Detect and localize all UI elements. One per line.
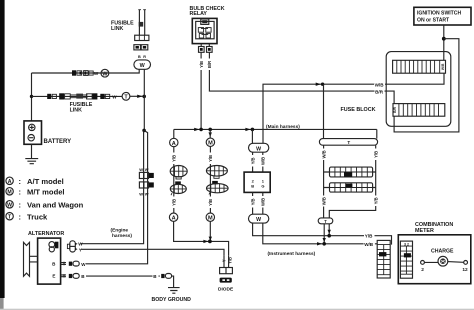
connector oval T long	[319, 139, 377, 146]
fusible link FL2 symbol	[59, 93, 97, 99]
node W legend	[6, 201, 13, 208]
svg-text:(Main harness): (Main harness)	[266, 124, 300, 130]
meter connector inside	[400, 241, 412, 278]
junction arrow down	[209, 237, 212, 241]
alternator	[38, 238, 61, 284]
connector round M1	[206, 166, 227, 179]
svg-text:W: W	[7, 203, 12, 209]
node engine harness junction	[208, 240, 212, 244]
svg-text:Y/B: Y/B	[250, 157, 255, 164]
svg-text:Y/B: Y/B	[199, 61, 204, 68]
label B/R	[375, 88, 385, 94]
svg-text:3 2: 3 2	[404, 242, 409, 246]
wire lamp terminals	[424, 261, 463, 264]
main harness line	[174, 128, 377, 130]
svg-text:W/B: W/B	[441, 63, 445, 70]
wire from T node to junction	[130, 95, 144, 97]
node relay tap	[199, 128, 203, 132]
legend	[6, 177, 84, 221]
svg-text:W: W	[256, 146, 261, 152]
alternator plug connector	[67, 241, 77, 252]
svg-text:harness): harness)	[112, 233, 132, 239]
svg-text:W/B: W/B	[375, 82, 385, 87]
combination meter box	[398, 235, 471, 284]
svg-text:A/T model: A/T model	[27, 177, 64, 186]
node M legend	[6, 188, 13, 195]
junction arrow down Y/B	[328, 230, 331, 234]
svg-text:W/B: W/B	[364, 242, 374, 247]
svg-text:Y/B: Y/B	[171, 155, 176, 162]
wire T oval to W/B row	[323, 224, 325, 244]
wire Y/B row	[253, 223, 392, 245]
svg-text:Y/B: Y/B	[250, 198, 255, 205]
svg-text:M: M	[208, 141, 213, 147]
label W/B rotated	[260, 196, 265, 208]
svg-text:W/B: W/B	[321, 197, 326, 205]
label Y/B rotated	[171, 153, 176, 165]
wire M branch middle	[209, 147, 211, 214]
svg-text:DIODE: DIODE	[218, 287, 234, 293]
alternator pulley	[24, 242, 38, 276]
node Y/B row junction	[327, 234, 331, 238]
svg-text:IGNITION SWITCH: IGNITION SWITCH	[417, 11, 461, 17]
label Y/B rotated	[227, 256, 232, 266]
svg-text:B: B	[138, 55, 141, 59]
node ignition branch	[442, 37, 446, 41]
label W/B row	[364, 241, 375, 247]
wire W (top battery feed)	[32, 70, 140, 74]
svg-text:W: W	[139, 192, 143, 197]
svg-text:(Instrument harness): (Instrument harness)	[268, 251, 316, 257]
wire A branch middle	[173, 147, 175, 213]
svg-text::: :	[19, 201, 22, 210]
left page black bar	[0, 0, 5, 298]
svg-text::: :	[19, 188, 22, 197]
label W/B rotated	[321, 196, 326, 207]
diode connector	[220, 268, 233, 274]
svg-text:FUSE BLOCK: FUSE BLOCK	[341, 107, 376, 113]
label B/R rotated	[207, 59, 212, 71]
connector on fusible wire	[100, 94, 109, 99]
svg-text:A: A	[172, 141, 176, 147]
junction arrow right W/B row	[317, 242, 322, 245]
svg-text:Y/B: Y/B	[208, 199, 213, 206]
node A legend	[6, 177, 13, 184]
svg-text:Y/B: Y/B	[171, 199, 176, 206]
node battery junction	[30, 95, 33, 98]
node A lower	[169, 213, 177, 222]
svg-text:W: W	[145, 192, 149, 197]
label W/B rotated	[321, 149, 326, 161]
bulb check relay	[192, 18, 217, 43]
connector strip 1	[330, 167, 373, 177]
label Y/B rotated	[199, 59, 204, 71]
node M upper	[206, 138, 214, 147]
svg-text:R: R	[143, 55, 146, 59]
junction arrow W branch	[245, 128, 250, 131]
fuse block	[386, 52, 451, 127]
svg-text:M: M	[7, 190, 11, 196]
svg-text:RELAY: RELAY	[190, 11, 208, 17]
label W/B rotated	[260, 155, 265, 167]
svg-text:W: W	[112, 95, 117, 100]
svg-text:Van and Wagon: Van and Wagon	[27, 201, 84, 210]
connector box B2 G1	[244, 172, 270, 192]
connector body ground	[161, 274, 171, 279]
wire to alternator plug W pin	[81, 130, 144, 243]
wire to body ground	[172, 276, 174, 287]
svg-text:W: W	[256, 217, 261, 223]
wires into diode connector	[224, 256, 229, 268]
wires W oval to connector box	[253, 152, 263, 172]
wire M branch	[209, 129, 211, 138]
label Y/B row	[364, 233, 375, 239]
node T legend	[6, 213, 13, 220]
svg-text::: :	[19, 177, 22, 186]
svg-text::: :	[19, 212, 22, 221]
svg-text:B/R: B/R	[375, 89, 384, 94]
wire alternator Y to diode	[81, 249, 224, 255]
svg-text:(Engine: (Engine	[111, 228, 129, 234]
node M lower	[206, 213, 214, 222]
connector pair on W wires lower	[139, 182, 153, 188]
connector pair on W wires	[139, 172, 153, 178]
main harness corner into fuse connector	[376, 129, 378, 138]
svg-text:A: A	[172, 216, 176, 222]
junction arrow relay	[194, 128, 199, 131]
wire M branch to engine harness junction	[209, 221, 211, 241]
fusible link FL1 (vertical)	[135, 10, 149, 41]
wire W/B branch to fuse T connector	[323, 84, 325, 138]
svg-text:T: T	[347, 140, 350, 145]
label Y rotated	[221, 257, 226, 265]
wire T oval left W/B down	[324, 145, 330, 218]
node W/B branch	[321, 83, 324, 86]
wire alternator E to body ground	[86, 275, 160, 277]
svg-text:M: M	[208, 216, 213, 222]
diode D1	[220, 278, 232, 283]
junction arrow down W/B	[323, 238, 326, 242]
wire W oval branch upper	[251, 129, 253, 143]
body ground symbol	[168, 288, 180, 294]
svg-text:12: 12	[462, 267, 468, 273]
label Y/B rotated	[208, 153, 213, 165]
svg-text:W: W	[139, 167, 143, 172]
junction arrow	[137, 95, 142, 98]
ignition switch box	[414, 7, 471, 25]
wire relay Y/B down to main harness	[200, 52, 202, 129]
junction arrow W/B	[316, 83, 321, 86]
node W branch tap	[251, 128, 255, 132]
svg-text:ON or START: ON or START	[417, 18, 450, 24]
label Y/B rotated	[373, 196, 378, 207]
wire relay B/R down and right to fuse block	[209, 52, 394, 103]
connector round M2	[207, 181, 229, 195]
fuse row 1	[393, 60, 446, 73]
connector strip 2	[330, 183, 373, 192]
wire ignition feed	[443, 25, 445, 60]
wire ignition loop to fuse row 2	[394, 39, 459, 132]
battery	[24, 121, 42, 144]
wire A branch to engine harness	[174, 221, 229, 255]
bottom page edge line	[0, 309, 474, 310]
wire fusible-link branch (lower battery feed)	[32, 95, 123, 97]
svg-text:A: A	[8, 179, 12, 185]
wire W/B row	[263, 223, 377, 244]
svg-text:G: G	[261, 184, 264, 189]
svg-text:W/B: W/B	[261, 198, 266, 206]
svg-text:W: W	[78, 242, 83, 247]
svg-text:W: W	[94, 71, 99, 76]
wire T oval to Y/B row	[328, 224, 330, 236]
instrument connector outside meter	[377, 240, 390, 278]
wire A branch	[173, 129, 175, 138]
svg-text:LINK: LINK	[70, 108, 83, 114]
wires connector box to W oval 2	[253, 192, 263, 214]
svg-text:T: T	[324, 219, 327, 224]
connector on W wire	[72, 70, 82, 75]
wire T oval right Y/B down	[329, 145, 375, 218]
alternator terminal stubs	[61, 262, 66, 278]
label (Main harness)	[265, 122, 311, 130]
meter terminal 2	[421, 261, 425, 265]
svg-text:Y/B: Y/B	[208, 155, 213, 162]
junction arrow M branch down	[209, 132, 212, 137]
node main split	[142, 129, 146, 133]
label B	[153, 273, 159, 279]
charge lamp	[438, 256, 448, 266]
svg-text:B: B	[251, 184, 254, 189]
fuse row 2	[393, 104, 445, 117]
node W (Van and Wagon)	[101, 69, 109, 77]
svg-text:W: W	[145, 167, 149, 172]
label Y/B rotated	[373, 149, 378, 161]
wire to alternator B terminal	[86, 131, 148, 264]
svg-text:ALTERNATOR: ALTERNATOR	[28, 231, 64, 237]
connector E terminal	[69, 274, 79, 279]
battery ground	[25, 144, 38, 163]
svg-text:Y/B: Y/B	[365, 234, 373, 239]
connector on fusible wire	[47, 94, 56, 99]
label Y/B rotated	[208, 197, 213, 209]
wire battery positive vertical	[31, 73, 33, 121]
svg-text:W/B: W/B	[261, 157, 266, 165]
svg-text:W: W	[81, 262, 86, 267]
connector round A2	[170, 181, 186, 195]
junction arrow right	[203, 240, 208, 243]
label Y/B rotated	[171, 197, 176, 209]
label Y/B rotated	[250, 155, 255, 167]
svg-text:B/R: B/R	[207, 61, 212, 68]
svg-text:BATTERY: BATTERY	[44, 139, 72, 145]
connector round A1	[170, 166, 187, 180]
svg-text:M/T model: M/T model	[27, 188, 65, 197]
node W/B row junction	[322, 242, 326, 246]
label W/B	[374, 81, 385, 87]
wire W oval down to junction	[143, 69, 145, 130]
relay pins	[199, 44, 213, 53]
wire engine harness to diode right	[228, 240, 230, 242]
svg-text:Y/B: Y/B	[373, 197, 378, 204]
svg-text:2: 2	[421, 267, 424, 273]
svg-text:E: E	[52, 274, 55, 279]
node T (Truck)	[122, 92, 130, 100]
connector on W wire	[84, 71, 94, 76]
connector oval W instrument 2	[249, 214, 269, 223]
svg-text:BODY GROUND: BODY GROUND	[152, 297, 192, 303]
wire W/B fuse block to W oval	[263, 73, 444, 143]
connector B terminal	[69, 261, 79, 266]
svg-text:B/R: B/R	[393, 106, 397, 112]
connector below fusible link	[134, 45, 148, 50]
node M branch tap	[208, 128, 212, 132]
node junction W wires	[142, 95, 146, 99]
svg-text:CHARGE: CHARGE	[431, 248, 454, 254]
svg-text:Truck: Truck	[27, 212, 48, 221]
node A upper	[170, 138, 178, 147]
meter terminal 12	[464, 261, 468, 265]
connector oval T small	[318, 218, 333, 224]
svg-text:W/B: W/B	[321, 150, 326, 158]
label Y/B rotated	[250, 196, 255, 208]
svg-text:Y/B: Y/B	[373, 151, 378, 158]
connector oval W	[134, 60, 151, 69]
svg-text:LINK: LINK	[111, 26, 124, 32]
svg-text:METER: METER	[415, 228, 434, 234]
connector oval W instrument	[249, 143, 269, 152]
